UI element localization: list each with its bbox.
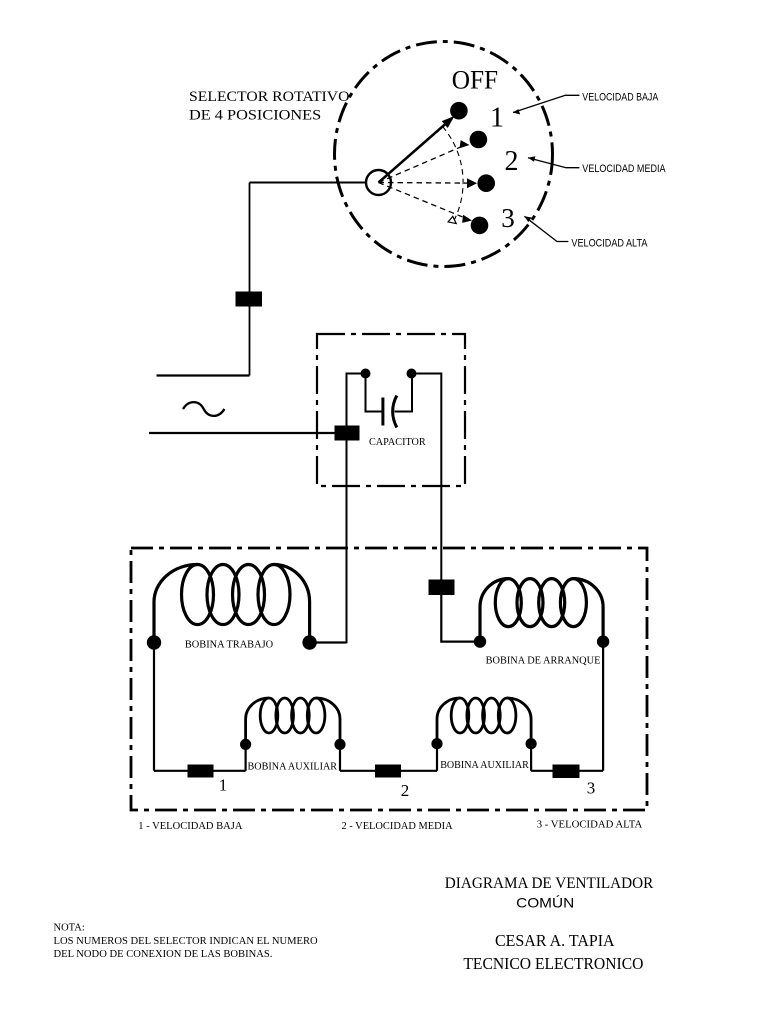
node right capacitor dot [407, 369, 417, 379]
capacitor C1 straight plate [381, 398, 384, 426]
svg-text:VELOCIDAD BAJA: VELOCIDAD BAJA [582, 92, 659, 104]
svg-text:2: 2 [505, 146, 519, 177]
node auxiliar 2 right [526, 738, 537, 749]
inductor bobina auxiliar 2 [437, 698, 531, 744]
svg-text:DE 4 POSICIONES: DE 4 POSICIONES [189, 108, 321, 124]
wire down from selector [249, 183, 251, 293]
node auxiliar 2 left [431, 738, 442, 749]
terminal block 1 [188, 765, 214, 778]
terminal block T1 on selector feed [236, 292, 263, 307]
inductor bobina trabajo [154, 565, 310, 643]
node auxiliar 1 left [240, 739, 251, 750]
svg-text:DIAGRAMA DE VENTILADOR: DIAGRAMA DE VENTILADOR [445, 875, 654, 892]
wire right bus down from arranque [602, 642, 604, 771]
svg-text:DEL NODO DE CONEXION DE LAS BO: DEL NODO DE CONEXION DE LAS BOBINAS. [54, 949, 273, 960]
dashed selector throw line to contact 2 [379, 182, 468, 185]
selector pivot circle [366, 170, 391, 195]
svg-text:1: 1 [219, 775, 228, 794]
terminal block 3 [553, 765, 580, 779]
node auxiliar 1 right [334, 739, 345, 750]
dashed selector throw line to contact 1 [379, 147, 460, 182]
capacitor C1 curved plate [393, 396, 397, 428]
svg-text:NOTA:: NOTA: [54, 923, 85, 934]
svg-text:VELOCIDAD ALTA: VELOCIDAD ALTA [571, 237, 648, 249]
motor box dash-dot border [131, 548, 647, 810]
contact 2 [477, 174, 495, 192]
selector title text [189, 89, 350, 124]
AC source line L [157, 374, 250, 376]
wire aux1 right drop [339, 744, 341, 770]
selector dial dashed circle [335, 42, 553, 267]
wire capacitor left branch [347, 374, 366, 644]
wire pivot to left [250, 182, 367, 184]
contact 1 [470, 131, 488, 149]
svg-text:1: 1 [490, 102, 504, 133]
wire capacitor right branch [412, 374, 442, 581]
capacitor C1 left lead [366, 374, 383, 412]
wire bus aux2 to terminal 3 [531, 770, 603, 772]
selector rotor arrow (pointing to OFF) [379, 124, 446, 183]
svg-text:CAPACITOR: CAPACITOR [369, 437, 426, 448]
svg-text:1 - VELOCIDAD BAJA: 1 - VELOCIDAD BAJA [138, 820, 242, 832]
AC source line N [149, 432, 335, 434]
leader line velocidad media [528, 158, 579, 168]
terminal block 2 [375, 765, 401, 778]
svg-text:OFF: OFF [452, 65, 498, 94]
svg-text:2 - VELOCIDAD MEDIA: 2 - VELOCIDAD MEDIA [342, 820, 453, 832]
svg-text:2: 2 [401, 781, 410, 800]
svg-text:BOBINA DE ARRANQUE: BOBINA DE ARRANQUE [486, 655, 601, 667]
wire trabajo right to capacitor branch [310, 641, 347, 643]
svg-text:BOBINA TRABAJO: BOBINA TRABAJO [185, 639, 273, 651]
terminal block on capacitor box [335, 426, 360, 441]
svg-text:VELOCIDAD MEDIA: VELOCIDAD MEDIA [582, 163, 666, 175]
node left capacitor dot [361, 369, 371, 379]
dashed rotation arc [443, 127, 464, 220]
leader line velocidad alta [524, 216, 568, 241]
wire aux2 left drop [436, 744, 438, 771]
svg-text:3: 3 [501, 203, 515, 233]
capacitor box dash-dot border [317, 334, 465, 486]
AC source symbol [183, 402, 224, 416]
svg-text:CESAR A. TAPIA: CESAR A. TAPIA [495, 931, 615, 950]
wire aux2 right drop [530, 744, 532, 771]
svg-text:BOBINA AUXILIAR: BOBINA AUXILIAR [248, 761, 338, 773]
wire aux1 left drop [245, 744, 247, 770]
capacitor C1 right lead [395, 374, 413, 412]
wire bus aux1 to aux2 [340, 770, 437, 772]
leader line velocidad baja [513, 95, 579, 112]
svg-text:3 - VELOCIDAD ALTA: 3 - VELOCIDAD ALTA [537, 819, 643, 831]
inductor bobina de arranque [480, 579, 603, 642]
contact 3 [471, 217, 489, 235]
node trabajo left [147, 635, 161, 649]
svg-text:BOBINA AUXILIAR: BOBINA AUXILIAR [440, 759, 529, 771]
svg-text:TECNICO ELECTRONICO: TECNICO ELECTRONICO [463, 954, 643, 973]
svg-text:3: 3 [587, 778, 596, 797]
node trabajo right [302, 635, 316, 649]
svg-text:COMÚN: COMÚN [516, 895, 574, 911]
wire T1 to AC line [249, 307, 251, 376]
wire start winding feed [441, 595, 480, 642]
wire left bus down [153, 643, 155, 771]
terminal block on start winding feed [429, 580, 455, 596]
inductor bobina auxiliar 1 [246, 698, 340, 744]
wire bottom bus [154, 770, 246, 772]
node arranque left [474, 635, 486, 647]
dashed selector throw line to contact 3 [379, 183, 463, 217]
svg-text:SELECTOR ROTATIVO: SELECTOR ROTATIVO [189, 89, 350, 105]
node arranque right [597, 635, 609, 647]
contact OFF [450, 102, 468, 120]
open arrowhead at arc end [448, 216, 456, 223]
svg-text:LOS NUMEROS DEL SELECTOR INDI: LOS NUMEROS DEL SELECTOR INDICAN EL NUME… [54, 936, 319, 947]
